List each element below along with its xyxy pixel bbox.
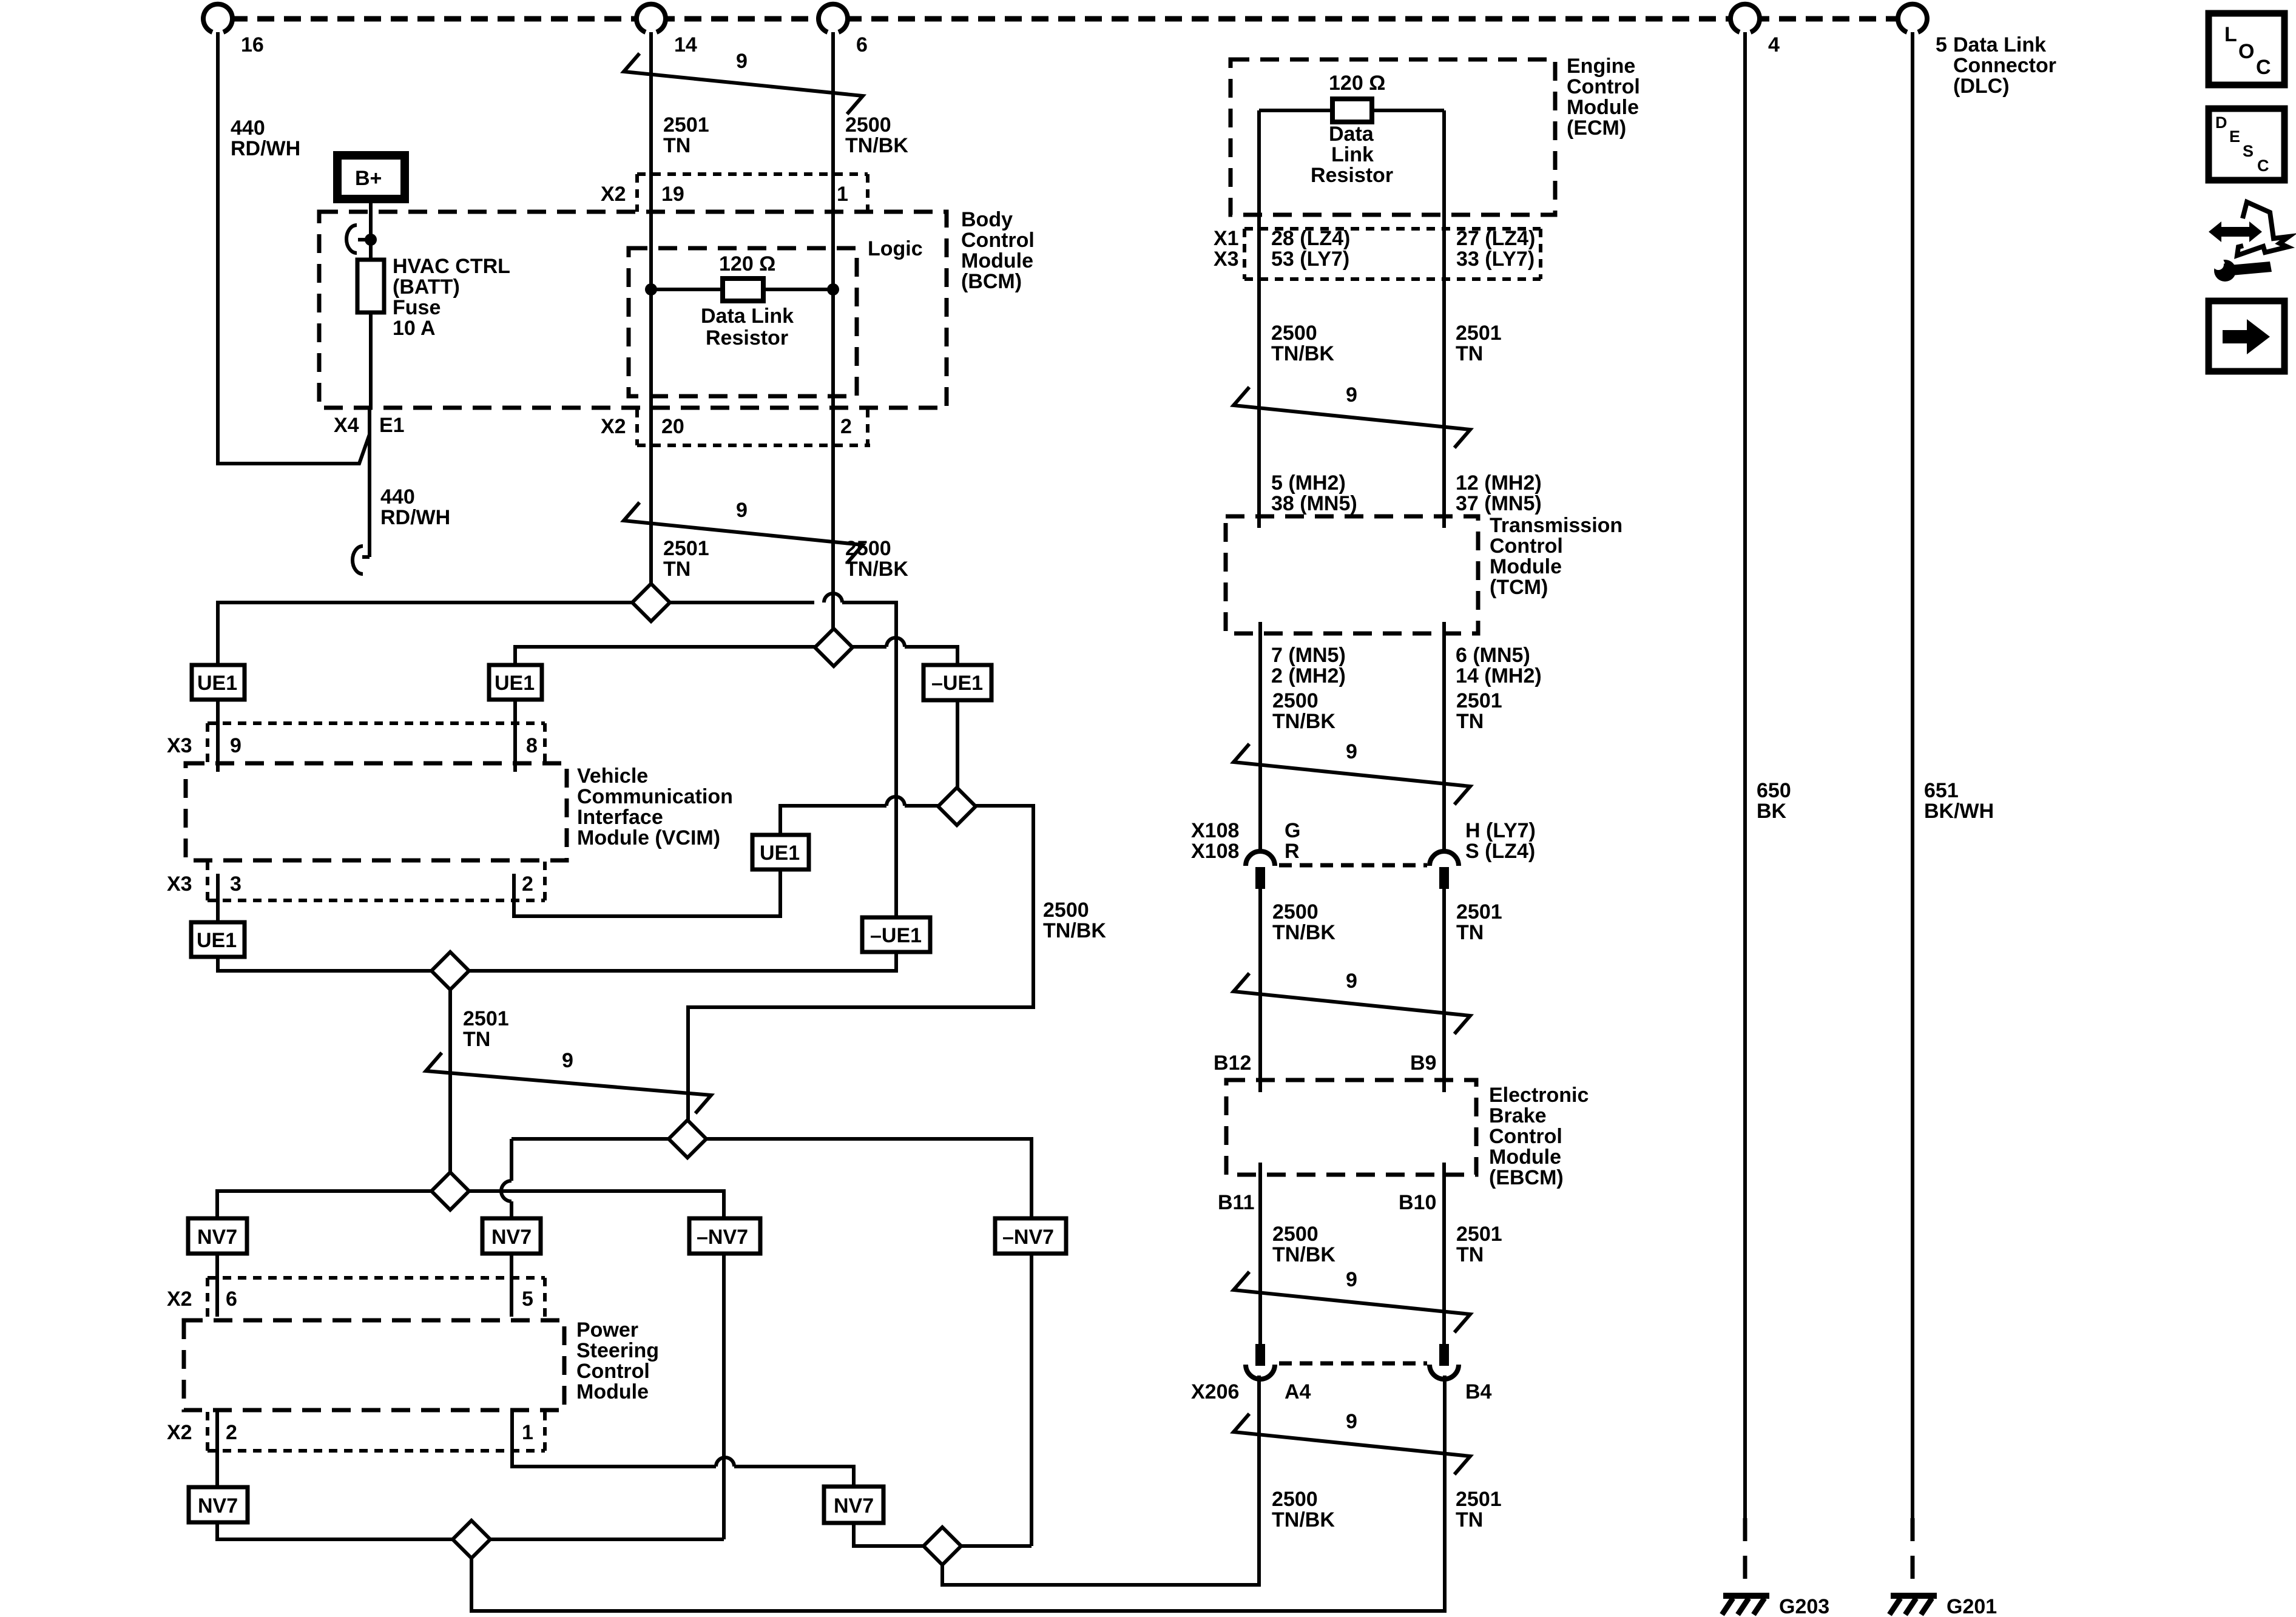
wire 651 BK/WH from DLC pin 5: [1911, 32, 1914, 1518]
wire bottom 2500 run to X206 A4: [942, 1376, 1259, 1585]
DLC cup pin 6: [819, 4, 848, 32]
X206 mating dashed line: [1279, 1362, 1427, 1366]
svg-text:9: 9: [1346, 740, 1357, 763]
svg-text:Link: Link: [1331, 143, 1374, 166]
option box NV7 (PSCM pin 2): [189, 1487, 248, 1522]
svg-text:2500: 2500: [1272, 689, 1319, 712]
icon harness outline: [2237, 202, 2289, 255]
wire to -UE1: [905, 647, 957, 665]
svg-text:A4: A4: [1285, 1380, 1311, 1403]
svg-text:2: 2: [522, 873, 533, 896]
module box EBCM: [1226, 1080, 1476, 1175]
svg-text:Data: Data: [1329, 123, 1374, 146]
svg-text:Module: Module: [576, 1380, 649, 1403]
wire -NV7 right drop: [1030, 1254, 1033, 1546]
ground symbol G201: [1889, 1596, 1937, 1615]
option box UE1 (VCIM pin 9): [192, 665, 245, 700]
option box UE1 (VCIM pin 2): [752, 835, 809, 869]
PSCM connector row X2 pins 2/1: [167, 1412, 545, 1451]
VCIM connector row X3 pins 9/8: [167, 723, 545, 762]
inline connector X206 left: [1246, 1344, 1275, 1379]
icon wrench: [2207, 253, 2272, 282]
svg-text:Brake: Brake: [1489, 1104, 1547, 1127]
wire 2500 TN/BK from DLC pin 6: [831, 32, 835, 629]
wire splice to -NV7 right: [961, 1544, 1032, 1548]
svg-text:L: L: [2224, 23, 2237, 46]
VCIM connector row X3 pins 3/2: [167, 862, 545, 900]
svg-text:2500: 2500: [1272, 1488, 1318, 1511]
svg-text:8: 8: [526, 734, 538, 757]
wire E1 440 RD/WH drop: [368, 408, 371, 557]
svg-text:10 A: 10 A: [393, 317, 436, 340]
wire NV7 pin2 to splice: [217, 1522, 724, 1539]
svg-text:651: 651: [1924, 779, 1959, 802]
DLC cup pin 4: [1730, 4, 1760, 32]
wire hop on vertical over NV7 horizontal: [501, 1181, 512, 1201]
svg-text:9: 9: [736, 499, 748, 522]
option box -NV7 (right): [995, 1218, 1066, 1254]
svg-text:NV7: NV7: [491, 1226, 532, 1249]
svg-text:TN/BK: TN/BK: [1272, 710, 1335, 733]
svg-text:Transmission: Transmission: [1490, 514, 1622, 537]
svg-text:440: 440: [231, 116, 265, 140]
svg-text:TN: TN: [463, 1028, 490, 1051]
svg-text:UE1: UE1: [495, 672, 535, 695]
svg-text:Data Link: Data Link: [1953, 33, 2046, 56]
svg-text:5: 5: [522, 1288, 533, 1311]
twisted pair symbol T5: [1234, 740, 1470, 805]
svg-text:X3: X3: [167, 734, 192, 757]
splice diamond bottom 2500: [923, 1527, 961, 1565]
svg-text:TN: TN: [1456, 921, 1484, 944]
svg-text:14 (MH2): 14 (MH2): [1456, 664, 1542, 687]
svg-text:G201: G201: [1947, 1595, 1997, 1617]
option box -UE1 (on vertical A): [862, 917, 930, 952]
wire 2501 EBCM to X206: [1442, 1163, 1446, 1345]
svg-text:X108: X108: [1191, 819, 1239, 842]
svg-text:X206: X206: [1191, 1380, 1239, 1403]
battery feed B+ box: [337, 155, 405, 199]
svg-text:Control: Control: [1489, 1125, 1562, 1148]
data link resistor wire (ECM): [1259, 109, 1444, 112]
svg-text:RD/WH: RD/WH: [231, 137, 300, 160]
PSCM pin stub 6: [215, 1254, 219, 1317]
option box UE1 (VCIM pin 3): [191, 922, 245, 957]
ground symbol G203: [1722, 1596, 1769, 1615]
svg-text:RD/WH: RD/WH: [380, 506, 450, 529]
wire UE1 up to horizontal 2500 branch: [780, 806, 886, 835]
svg-text:Interface: Interface: [577, 806, 663, 829]
svg-text:Module: Module: [961, 249, 1033, 272]
svg-text:UE1: UE1: [197, 929, 237, 952]
option box NV7 (PSCM pin 5): [482, 1218, 541, 1254]
option box NV7 (PSCM pin 1): [824, 1487, 883, 1523]
VCIM pin stub 3: [216, 874, 220, 922]
svg-text:TN/BK: TN/BK: [845, 134, 908, 157]
wire UE1 pin3 drop to horizontal 2501 branch: [218, 952, 896, 971]
svg-text:2501: 2501: [1456, 900, 1502, 923]
icon next-page arrow box: [2209, 301, 2284, 371]
svg-text:E1: E1: [379, 414, 405, 437]
svg-text:Module: Module: [1489, 1146, 1561, 1169]
svg-text:TN/BK: TN/BK: [1272, 1243, 1335, 1266]
module box TCM: [1226, 516, 1478, 633]
svg-text:9: 9: [736, 50, 748, 73]
svg-text:Module: Module: [1567, 96, 1639, 119]
svg-text:37 (MN5): 37 (MN5): [1456, 492, 1542, 515]
inline connector X108 right: [1430, 851, 1459, 889]
svg-text:Control: Control: [961, 229, 1035, 252]
svg-text:19: 19: [661, 183, 684, 206]
module box BCM: [319, 212, 947, 408]
svg-text:2500: 2500: [1043, 899, 1089, 922]
svg-text:B+: B+: [355, 167, 382, 190]
wire NV7 horizontal left: [217, 1191, 431, 1218]
svg-text:440: 440: [380, 485, 415, 508]
wire 2500 EBCM to X206: [1258, 1163, 1262, 1345]
wire horizontal 2500 branch to -NV7: [512, 1139, 1032, 1218]
svg-text:2500: 2500: [1271, 322, 1317, 345]
DLC cup pin 14: [636, 4, 666, 32]
icon DESC box: [2209, 109, 2284, 180]
svg-text:2 (MH2): 2 (MH2): [1271, 664, 1346, 687]
svg-text:B9: B9: [1410, 1052, 1436, 1075]
connector DLC top dashed line: [204, 16, 1926, 22]
wire hop over vertical A: [886, 797, 905, 806]
wire bottom 2501 long run: [471, 1376, 1445, 1611]
svg-text:NV7: NV7: [834, 1494, 874, 1517]
wire -UE1 drop to splice: [956, 700, 959, 788]
svg-text:O: O: [2238, 40, 2254, 63]
svg-text:TN/BK: TN/BK: [1272, 921, 1335, 944]
wire 2500 branch to NV7 (hop over): [510, 1139, 513, 1181]
PSCM pin stub 5: [510, 1254, 513, 1317]
svg-text:Engine: Engine: [1567, 55, 1635, 78]
svg-text:2500: 2500: [845, 537, 891, 560]
svg-text:TN: TN: [1456, 1508, 1483, 1531]
resistor 120 ohm (BCM): [723, 279, 763, 301]
VCIM pin stub 2 wire to UE1: [514, 869, 780, 916]
svg-text:14: 14: [674, 33, 697, 56]
ECM right wire 2501: [1442, 110, 1446, 528]
svg-text:X108: X108: [1191, 840, 1239, 863]
ECM left wire 2500: [1257, 110, 1261, 528]
wire NV7 pin1 to splice: [854, 1523, 923, 1546]
svg-text:2501: 2501: [1456, 1223, 1502, 1246]
svg-text:–NV7: –NV7: [1002, 1226, 1054, 1249]
svg-text:H (LY7): H (LY7): [1465, 819, 1536, 842]
svg-text:Resistor: Resistor: [706, 326, 788, 349]
svg-text:Logic: Logic: [868, 237, 923, 260]
svg-text:HVAC CTRL: HVAC CTRL: [393, 255, 510, 278]
svg-text:Power: Power: [576, 1318, 638, 1342]
wire 2501 X108 to EBCM: [1442, 889, 1446, 1092]
svg-text:2501: 2501: [1456, 322, 1502, 345]
PSCM pin 1 wire right: [512, 1410, 716, 1467]
splice diamond 2501 mid: [431, 952, 469, 990]
icon double arrow: [2209, 221, 2262, 242]
inline terminal hook lower: [362, 555, 370, 559]
twisted pair symbol T3: [426, 1049, 711, 1113]
twisted pair symbol T6: [1234, 970, 1470, 1034]
svg-text:16: 16: [241, 33, 264, 56]
resistor 120 ohm (ECM): [1332, 99, 1372, 122]
svg-text:9: 9: [1346, 383, 1357, 407]
wire 2500 TCM to X108: [1258, 622, 1262, 851]
svg-text:TN: TN: [1456, 1243, 1484, 1266]
svg-text:S: S: [2243, 142, 2254, 160]
svg-text:12 (MH2): 12 (MH2): [1456, 471, 1542, 495]
svg-text:Control: Control: [1490, 535, 1563, 558]
svg-text:38 (MN5): 38 (MN5): [1271, 492, 1357, 515]
option box NV7 (PSCM pin 6): [188, 1218, 247, 1254]
svg-text:6: 6: [856, 33, 868, 56]
wire 2501 drop from splice: [448, 990, 452, 1172]
svg-text:2500: 2500: [1272, 900, 1319, 923]
svg-text:X1: X1: [1214, 227, 1239, 250]
wire 650 BK from DLC pin 4: [1743, 32, 1747, 1518]
wire 2501 TCM to X108: [1442, 622, 1446, 851]
svg-text:2501: 2501: [1456, 689, 1502, 712]
svg-text:Control: Control: [576, 1360, 650, 1383]
wire 2500 X108 to EBCM: [1258, 889, 1262, 1092]
svg-text:X2: X2: [601, 415, 626, 438]
svg-text:(TCM): (TCM): [1490, 576, 1548, 599]
svg-text:NV7: NV7: [198, 1494, 238, 1517]
svg-text:(BATT): (BATT): [393, 275, 460, 299]
icon LOC box: [2209, 13, 2284, 85]
svg-text:X2: X2: [167, 1421, 192, 1444]
inline terminal hook at fuse: [346, 225, 357, 253]
svg-text:7 (MN5): 7 (MN5): [1271, 644, 1346, 667]
svg-text:TN: TN: [663, 558, 690, 581]
option box UE1 (VCIM pin 8): [489, 665, 542, 700]
svg-text:9: 9: [1346, 1268, 1357, 1291]
svg-text:2500: 2500: [845, 113, 891, 137]
svg-text:Data Link: Data Link: [701, 305, 794, 328]
svg-text:–NV7: –NV7: [697, 1226, 748, 1249]
svg-text:TN: TN: [663, 134, 690, 157]
svg-text:(EBCM): (EBCM): [1489, 1166, 1564, 1189]
splice diamond NV7 row: [431, 1172, 469, 1210]
module box PSCM: [184, 1320, 564, 1410]
wire branch 2501 horizontal to UE1: [218, 603, 814, 665]
BCM connector row X2 pins 20/2: [601, 409, 870, 445]
svg-text:TN/BK: TN/BK: [845, 558, 908, 581]
svg-text:9: 9: [1346, 970, 1357, 993]
svg-text:9: 9: [230, 734, 241, 757]
svg-text:6 (MN5): 6 (MN5): [1456, 644, 1530, 667]
svg-text:5 (MH2): 5 (MH2): [1271, 471, 1346, 495]
svg-text:(DLC): (DLC): [1953, 75, 2010, 98]
junction dot: [365, 234, 377, 246]
svg-text:53 (LY7): 53 (LY7): [1271, 248, 1349, 271]
wire -NV7 left drop: [722, 1254, 726, 1539]
twisted pair symbol T7: [1234, 1268, 1470, 1332]
junction dot left: [645, 283, 657, 295]
svg-text:X3: X3: [167, 873, 192, 896]
svg-text:X2: X2: [167, 1288, 192, 1311]
svg-text:C: C: [2256, 56, 2271, 79]
svg-text:B4: B4: [1465, 1380, 1492, 1403]
svg-text:Body: Body: [961, 208, 1013, 231]
svg-text:–UE1: –UE1: [931, 672, 983, 695]
svg-text:Vehicle: Vehicle: [577, 765, 648, 788]
svg-text:X4: X4: [334, 414, 359, 437]
DLC cup pin 5: [1898, 4, 1927, 32]
svg-text:(ECM): (ECM): [1567, 116, 1626, 140]
svg-text:1: 1: [522, 1421, 533, 1444]
svg-text:R: R: [1285, 840, 1300, 863]
twisted pair symbol T2: [624, 499, 863, 563]
svg-text:120 Ω: 120 Ω: [719, 252, 775, 275]
svg-text:2500: 2500: [1272, 1223, 1319, 1246]
twisted pair symbol T4: [1234, 383, 1470, 448]
wire branch 2500 horizontal to UE1: [515, 647, 886, 665]
BCM Logic inner dashed box: [629, 248, 857, 396]
splice diamond bottom 2501: [453, 1521, 490, 1558]
svg-text:Steering: Steering: [576, 1339, 659, 1362]
svg-text:TN: TN: [1456, 710, 1484, 733]
inline connector X108 left: [1246, 851, 1275, 889]
svg-text:2501: 2501: [1456, 1488, 1502, 1511]
svg-text:9: 9: [562, 1049, 573, 1072]
ECM connector row X1/X3: [1214, 227, 1541, 279]
svg-text:20: 20: [661, 415, 684, 438]
svg-text:B11: B11: [1218, 1191, 1255, 1214]
svg-text:TN/BK: TN/BK: [1043, 919, 1106, 942]
BCM internal fuse feed wire: [369, 197, 373, 408]
wire hop over vertical A: [886, 638, 905, 647]
svg-text:2: 2: [840, 415, 852, 438]
svg-text:Communication: Communication: [577, 785, 733, 808]
svg-text:G203: G203: [1779, 1595, 1829, 1617]
svg-text:2501: 2501: [463, 1007, 509, 1030]
option box -UE1 (right of 2500): [923, 665, 991, 700]
wire 2501 TN from DLC pin 14: [649, 32, 653, 584]
svg-text:B10: B10: [1399, 1191, 1436, 1214]
svg-text:5: 5: [1936, 33, 1947, 56]
VCIM pin stub 8: [513, 700, 517, 772]
svg-text:Module: Module: [1490, 555, 1562, 578]
ground lead dashed G201: [1911, 1518, 1915, 1592]
option box -NV7 (left): [689, 1218, 760, 1254]
wire 440 RD/WH from DLC pin 16: [218, 32, 370, 464]
wire hop over 2500 wire: [824, 593, 842, 603]
svg-text:–UE1: –UE1: [870, 924, 922, 947]
PSCM connector row X2 pins 6/5: [167, 1278, 545, 1317]
svg-text:Fuse: Fuse: [393, 296, 441, 319]
module box VCIM: [186, 763, 567, 860]
twisted pair symbol T1: [624, 50, 863, 114]
svg-text:27 (LZ4): 27 (LZ4): [1456, 227, 1535, 250]
wire NV7 horizontal right: [469, 1191, 724, 1218]
module box ECM: [1231, 59, 1555, 215]
svg-text:TN/BK: TN/BK: [1271, 342, 1334, 365]
svg-text:28 (LZ4): 28 (LZ4): [1271, 227, 1350, 250]
svg-text:E: E: [2229, 127, 2240, 146]
DLC cup pin 16: [203, 4, 232, 32]
svg-text:120 Ω: 120 Ω: [1329, 72, 1385, 95]
X108 mating dashed line: [1279, 863, 1427, 868]
wire to corner right: [688, 806, 1033, 1122]
svg-text:UE1: UE1: [760, 842, 800, 865]
data link resistor wire (BCM): [651, 288, 833, 291]
svg-text:B12: B12: [1214, 1052, 1251, 1075]
svg-text:3: 3: [230, 873, 241, 896]
wire to vertical A: [842, 603, 896, 917]
PSCM pin 2 wire to NV7: [215, 1410, 219, 1487]
svg-text:2501: 2501: [663, 537, 709, 560]
svg-text:BK/WH: BK/WH: [1924, 800, 1994, 823]
splice diamond on 2501: [632, 584, 670, 621]
VCIM pin stub 9: [216, 700, 220, 772]
splice diamond 2500 low: [669, 1120, 706, 1158]
inline connector X206 right: [1430, 1344, 1459, 1379]
svg-text:X2: X2: [601, 183, 626, 206]
twisted pair symbol T8: [1234, 1410, 1470, 1474]
svg-text:TN: TN: [1456, 342, 1483, 365]
junction dot right: [827, 283, 839, 295]
svg-text:Control: Control: [1567, 75, 1640, 98]
svg-text:UE1: UE1: [197, 672, 237, 695]
svg-text:650: 650: [1757, 779, 1791, 802]
svg-text:Module (VCIM): Module (VCIM): [577, 826, 720, 849]
svg-text:S (LZ4): S (LZ4): [1465, 840, 1535, 863]
BCM connector row X2 pins 19/1: [601, 174, 868, 212]
fuse HVAC CTRL (BATT) 10A: [357, 260, 384, 312]
svg-text:X3: X3: [1214, 248, 1239, 271]
svg-text:4: 4: [1768, 33, 1780, 56]
svg-text:D: D: [2215, 113, 2227, 132]
splice diamond on 2500: [815, 629, 853, 666]
svg-text:9: 9: [1346, 1410, 1357, 1433]
splice diamond 2500 mid: [938, 788, 976, 825]
svg-text:2: 2: [226, 1421, 237, 1444]
svg-text:BK: BK: [1757, 800, 1787, 823]
svg-text:C: C: [2257, 157, 2269, 175]
svg-text:Resistor: Resistor: [1311, 164, 1393, 187]
svg-text:(BCM): (BCM): [961, 270, 1022, 293]
svg-text:6: 6: [226, 1288, 237, 1311]
svg-text:33 (LY7): 33 (LY7): [1456, 248, 1535, 271]
svg-text:1: 1: [837, 183, 848, 206]
svg-text:2501: 2501: [663, 113, 709, 137]
svg-text:Connector: Connector: [1953, 54, 2056, 77]
svg-text:G: G: [1285, 819, 1300, 842]
svg-text:TN/BK: TN/BK: [1272, 1508, 1335, 1531]
svg-text:Electronic: Electronic: [1489, 1084, 1589, 1107]
svg-text:NV7: NV7: [197, 1226, 237, 1249]
wire hop over -NV7 drop: [716, 1457, 734, 1467]
ground lead dashed G203: [1743, 1518, 1747, 1592]
